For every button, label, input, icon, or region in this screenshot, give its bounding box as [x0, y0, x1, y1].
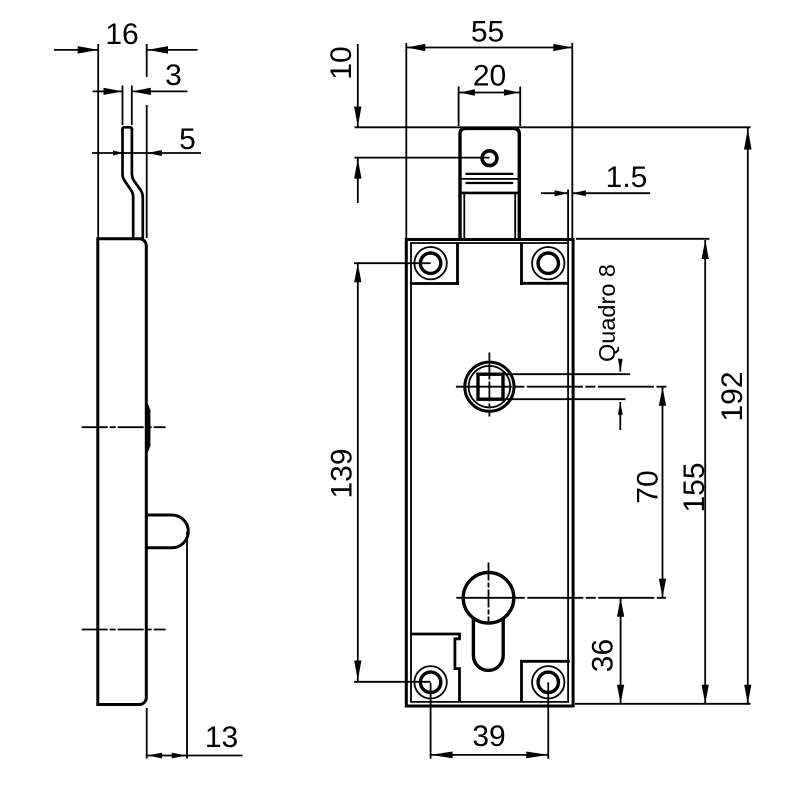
dim 16 extension right (lower piece): [146, 105, 148, 238]
dim 20 arrow right: [504, 89, 520, 95]
svg-text:Quadro 8: Quadro 8: [594, 264, 620, 362]
euro cylinder circle: [463, 573, 514, 624]
dim 5 arrow right: [147, 150, 162, 156]
dim 55 extension right / 1.5 right line: [571, 43, 573, 239]
dim 55 line: [406, 47, 572, 49]
screw hole bottom-left inner: [420, 672, 440, 692]
dim 155 arrow bottom: [702, 685, 709, 704]
centerline lower: [82, 629, 166, 631]
dim 55 arrow left: [406, 44, 425, 51]
svg-text:1.5: 1.5: [606, 161, 648, 194]
dim 10 arrow bottom: [354, 159, 361, 179]
quadro square top extension: [505, 373, 630, 375]
dim 139 arrow top: [354, 263, 361, 282]
dim 36 arrow bottom: [617, 685, 624, 704]
hook bar top cap: [123, 127, 132, 131]
dim 10 upper stem: [357, 44, 359, 127]
lock case inner outline: [411, 243, 568, 702]
dim 192 arrow bottom: [744, 685, 751, 704]
dim 3 extension left: [122, 86, 124, 126]
hook bar right wall: [132, 129, 143, 239]
dim 55 extension left: [405, 43, 407, 239]
cover corner bottom-right box: [520, 660, 570, 663]
svg-text:192: 192: [716, 371, 749, 421]
dim 39 extension left: [430, 683, 432, 759]
tab hole center extension: [355, 157, 490, 159]
dim 13 arrow left: [148, 753, 163, 759]
tab line A: [466, 173, 514, 175]
spindle hub inner circle: [469, 366, 511, 408]
body top right extension: [576, 238, 709, 240]
dim 1.5 arrow left: [555, 190, 569, 196]
top hole center extension: [354, 262, 431, 264]
dim 155 line: [704, 240, 706, 704]
dim 1.5 inner extension: [567, 190, 569, 244]
dim 20 extension left: [458, 87, 460, 127]
dim 155 arrow top: [702, 240, 709, 259]
svg-text:55: 55: [471, 16, 504, 49]
dim 16 extension right (upper piece): [146, 44, 148, 77]
dim 5 line: [92, 152, 201, 154]
dim 16 line: [54, 49, 98, 51]
svg-text:139: 139: [325, 448, 358, 498]
dim 39 arrow right: [526, 752, 548, 759]
svg-text:10: 10: [325, 46, 358, 79]
svg-text:5: 5: [179, 123, 196, 156]
lock case outer outline: [406, 240, 573, 707]
dim quadro arrow bottom: [618, 402, 623, 415]
tab line C: [466, 182, 514, 184]
tab top extension line (long): [355, 126, 751, 128]
dim 5 arrow left: [113, 151, 123, 156]
dim 192 arrow top: [744, 129, 752, 150]
hook bar left wall: [123, 129, 134, 239]
plate body (side view): [98, 239, 147, 705]
svg-text:155: 155: [678, 462, 711, 512]
dim 20 extension right: [519, 87, 521, 127]
dim 10 lower stem: [357, 158, 359, 203]
dim quadro arrow top: [618, 359, 623, 372]
dim 20 arrow left: [459, 89, 475, 95]
dim 70 arrow bottom: [659, 579, 666, 598]
dim 16 arrow right: [148, 46, 169, 54]
screw hole top-left outer: [414, 247, 446, 279]
bar inner edge left below fold: [463, 193, 465, 239]
dim 13 line: [147, 755, 243, 757]
quadro square bottom extension: [505, 398, 626, 400]
spindle hub outer circle: [465, 362, 514, 411]
svg-text:20: 20: [473, 60, 506, 93]
svg-text:3: 3: [165, 59, 182, 92]
svg-text:36: 36: [586, 639, 619, 672]
dim 39 arrow left: [431, 752, 453, 759]
dim 13 extension left: [146, 708, 148, 759]
dim 3 line: [93, 90, 123, 92]
cylinder crosshair horizontal / dim 70-36 bottom extension: [456, 597, 666, 599]
bar inner edge right below fold: [514, 193, 516, 239]
tab fold line D: [460, 192, 519, 195]
dim 39 line: [431, 754, 549, 756]
dim 36 arrow top: [617, 598, 624, 617]
dim 3 extension right: [131, 86, 133, 126]
dim 16 extension left: [97, 44, 99, 238]
hub crosshair horizontal / dim 70 top extension: [456, 386, 666, 388]
cover corner top-right box: [520, 243, 523, 285]
dim 13 extension right: [186, 532, 188, 759]
svg-text:70: 70: [632, 470, 665, 503]
dim 10 arrow top: [354, 107, 361, 127]
svg-text:13: 13: [205, 721, 238, 754]
screw hole top-right outer: [532, 247, 564, 279]
dim 3 arrow right: [132, 88, 151, 95]
dim 70 arrow top: [659, 387, 666, 406]
cover corner bottom-left box with notch: [410, 633, 460, 636]
dim 1.5 line left part: [541, 192, 568, 194]
screw hole bottom-left outer: [414, 666, 446, 698]
hub crosshair vertical: [488, 353, 490, 417]
spindle square: [478, 374, 503, 399]
tab hole: [482, 151, 497, 166]
screw hole bottom-right outer: [532, 666, 564, 698]
centerline upper: [82, 426, 166, 428]
top tab outline: [460, 128, 519, 239]
bottom hole center extension: [354, 681, 431, 683]
screw hole top-left inner: [420, 253, 440, 273]
dim 70 line: [662, 387, 664, 598]
dim 39 extension right: [547, 683, 549, 759]
euro cylinder neck: [473, 618, 503, 670]
dim quadro lower stem: [619, 402, 621, 430]
cylinder crosshair vertical: [488, 563, 490, 622]
screw hole bottom-right inner: [538, 672, 558, 692]
dim 192 line: [747, 127, 749, 704]
side pin (stadium bump): [147, 515, 188, 548]
dim quadro upper stem: [619, 363, 621, 372]
dim 139 arrow bottom: [354, 661, 361, 681]
cover corner top-left box: [456, 243, 459, 285]
svg-text:16: 16: [105, 18, 138, 51]
dim 3 arrow left: [104, 88, 123, 95]
svg-text:39: 39: [472, 720, 505, 753]
dim 20 line: [459, 92, 521, 94]
dim 55 arrow right: [553, 44, 572, 51]
bottom right hole vertical center line: [547, 681, 549, 684]
body bottom right extension: [575, 703, 751, 705]
dim 1.5 arrow right: [572, 190, 586, 196]
dim 36 line: [620, 598, 622, 704]
dim 139 line: [357, 263, 359, 682]
tab line B: [462, 178, 518, 180]
dim 13 arrow right: [172, 753, 187, 759]
dim 1.5 line right part: [572, 192, 650, 194]
dim 16 arrow left: [78, 46, 99, 54]
screw hole top-right inner: [538, 253, 558, 273]
lug on plate right edge: [148, 403, 151, 453]
